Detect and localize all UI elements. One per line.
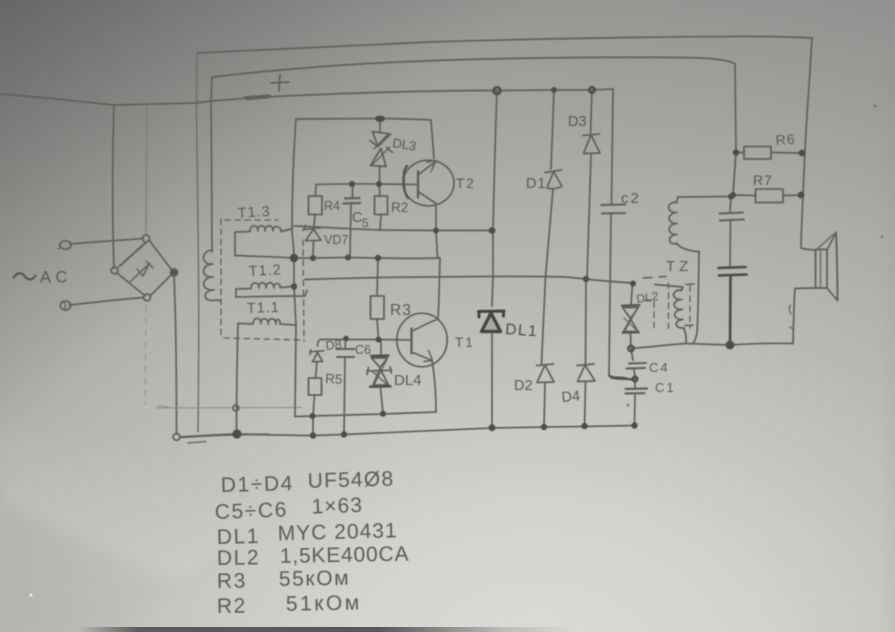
svg-text:T1.2: T1.2 bbox=[248, 262, 282, 280]
wire V0 to bridge left corner bbox=[113, 105, 114, 268]
svg-text:55кОм: 55кОм bbox=[279, 567, 351, 591]
node box top edge DL3 junction bbox=[375, 116, 385, 122]
wire rail y257 bbox=[235, 256, 440, 259]
wire AC lead bottom bbox=[69, 298, 144, 306]
wire left box vertical x294 bbox=[292, 119, 296, 416]
TZ polarity ticks bbox=[643, 277, 694, 326]
parts list line D1-D4 bbox=[220, 467, 394, 497]
diode DL3 bbox=[370, 121, 393, 183]
node rail278 DL2 junction bbox=[630, 281, 636, 287]
svg-text:T1.1: T1.1 bbox=[247, 300, 281, 317]
wire stray dash below bottom rail bbox=[188, 442, 206, 444]
transformer T1 core dashed left bbox=[220, 219, 222, 337]
wire speaker bottom lead bbox=[793, 288, 816, 344]
diode D1 bbox=[545, 90, 562, 277]
diode DL1 bold bbox=[479, 311, 505, 332]
svg-text:DL1: DL1 bbox=[505, 321, 539, 340]
svg-text:R4: R4 bbox=[324, 199, 340, 213]
svg-text:D8: D8 bbox=[325, 337, 342, 353]
svg-text:R7: R7 bbox=[753, 172, 773, 188]
svg-text:c2: c2 bbox=[621, 190, 641, 207]
svg-text:DL4: DL4 bbox=[394, 372, 422, 389]
capacitor C5 bbox=[344, 184, 361, 257]
node rail278 D3-D4 junction bbox=[583, 276, 589, 282]
node plus-rail x554 junction bbox=[551, 87, 557, 93]
parts list line R3 bbox=[217, 567, 351, 593]
capacitor C4 bbox=[627, 349, 647, 378]
wire T1.2 left lead down bbox=[235, 289, 237, 297]
resistor R7 bbox=[733, 189, 801, 203]
node rail257 VD7 junction bbox=[310, 255, 316, 261]
wire bottom rail bbox=[180, 426, 634, 438]
bottom-left crease shadow bbox=[0, 430, 340, 632]
svg-text:C5÷C6: C5÷C6 bbox=[214, 498, 288, 524]
svg-text:UF54Ø8: UF54Ø8 bbox=[307, 467, 394, 492]
winding T1.3 bbox=[235, 226, 281, 232]
capacitor C2 bbox=[602, 89, 637, 380]
wire T2 collector vertical bbox=[431, 120, 434, 158]
transformer T1 core dashed bottom bbox=[224, 338, 302, 340]
svg-text:TZ: TZ bbox=[666, 258, 692, 275]
wire T1.1 left lead down to bottom rail bbox=[237, 324, 239, 434]
wire rail y278 long bbox=[305, 276, 631, 283]
svg-text:DL2: DL2 bbox=[217, 546, 261, 570]
diode D2 bbox=[537, 277, 555, 427]
node bottom rail R5 junction bbox=[310, 432, 316, 438]
node TZ primary top junction bbox=[728, 194, 734, 200]
node rail257 R3 junction bbox=[375, 255, 381, 261]
wire between caps bbox=[729, 221, 732, 267]
node R6 left junction bbox=[733, 149, 739, 155]
svg-text:C6: C6 bbox=[355, 343, 371, 357]
svg-text:C: C bbox=[352, 210, 362, 226]
node C4-C1 scribble junction bbox=[632, 376, 637, 381]
wire left vertical V2 to T1 primary bbox=[211, 77, 212, 252]
svg-text:D4: D4 bbox=[561, 388, 581, 406]
node plus-rail x592 junction bbox=[589, 87, 595, 93]
wire R6 left vertical bbox=[731, 64, 736, 197]
svg-text:T2: T2 bbox=[456, 176, 476, 191]
svg-text:R5: R5 bbox=[325, 371, 343, 387]
svg-text:AC: AC bbox=[40, 269, 72, 287]
node rail257 C5 junction bbox=[345, 255, 351, 261]
node TZ bottom junction bbox=[726, 341, 735, 350]
svg-text:1,5KE400CA: 1,5KE400CA bbox=[280, 543, 410, 568]
node R7 left junction bbox=[730, 192, 736, 198]
winding T1.1 bbox=[238, 318, 296, 325]
resistor R4 bbox=[309, 185, 323, 227]
node open circle bottom-left of bottom rail bbox=[173, 434, 180, 441]
bottom dark photo edge strip bbox=[78, 627, 578, 632]
wire plus rail from left edge bbox=[0, 89, 613, 105]
transistor T2 bbox=[403, 160, 454, 206]
transformer T1 primary winding bbox=[204, 250, 221, 301]
capacitor C1 bbox=[626, 378, 648, 426]
wire speaker top lead bbox=[801, 248, 816, 250]
node DL2 bottom junction bbox=[628, 346, 634, 352]
diode D8 bbox=[310, 340, 324, 379]
parts list text bbox=[214, 467, 409, 618]
capacitor C upper on TZ right bbox=[720, 213, 745, 221]
resistor R5 bbox=[309, 378, 322, 435]
wire bold vertical to bottom dot bbox=[729, 276, 732, 346]
faint construction line y408 bbox=[156, 406, 302, 408]
node bottom rail T1.1 blob bbox=[232, 429, 241, 438]
node R6 right junction bbox=[799, 150, 806, 157]
wire T2 emitter down bbox=[435, 204, 437, 231]
wire faint vertical to bridge top corner bbox=[146, 104, 147, 235]
wire second top rail bbox=[212, 57, 735, 77]
resistor R6 bbox=[736, 147, 802, 160]
node bottom rail DL1 junction bbox=[489, 424, 496, 431]
resistor R2 bbox=[375, 184, 388, 230]
diode D4 bbox=[577, 280, 595, 427]
wire T1.3 right lead up bbox=[281, 229, 291, 232]
diode DL2 bbox=[622, 284, 640, 349]
wire left vertical V1 to bottom rail bbox=[197, 53, 199, 432]
wire right outer vertical bbox=[801, 38, 812, 248]
node box edge R5 junction bbox=[310, 413, 316, 419]
transformer TZ core dashes bbox=[654, 283, 690, 333]
wire center vertical DL1 line bbox=[492, 91, 497, 306]
wire bridge right corner down to bottom rail bbox=[174, 276, 177, 434]
resistor R3 bbox=[371, 258, 385, 339]
transformer T1 core dashed right bbox=[303, 240, 304, 341]
node R7 right junction bbox=[798, 192, 805, 199]
svg-text:MYC 20431: MYC 20431 bbox=[277, 519, 397, 545]
svg-text:C1: C1 bbox=[655, 380, 676, 395]
wire T1 collector up to rail bbox=[438, 258, 440, 319]
parts list line C5-C6 bbox=[214, 494, 363, 524]
parts list line R2 bbox=[217, 591, 362, 618]
faint dashed vertical below bridge bbox=[145, 306, 146, 404]
wire plus rail overdraw scribble bbox=[244, 96, 270, 100]
node rail184 DL3-R2 junction bbox=[376, 181, 382, 187]
svg-text:5: 5 bbox=[362, 216, 369, 230]
svg-text:D3: D3 bbox=[568, 114, 587, 130]
wire rail y230 emitter line bbox=[294, 226, 492, 231]
svg-text:R2: R2 bbox=[391, 200, 408, 215]
right edge shading bbox=[877, 60, 895, 632]
wire DL1 to bottom rail bbox=[491, 333, 493, 427]
node AC terminal 2 bbox=[60, 301, 70, 310]
winding T1.2 bbox=[236, 283, 292, 289]
lower box bottom edge bbox=[295, 412, 436, 417]
upper box top edge bbox=[296, 119, 431, 121]
wire top outer rail bbox=[197, 36, 812, 53]
svg-text:T1.3: T1.3 bbox=[237, 204, 271, 222]
transistor T1 bbox=[397, 313, 447, 367]
speaker lead tick marks bbox=[789, 305, 793, 329]
node base line C6 junction bbox=[343, 336, 349, 342]
svg-text:51кОм: 51кОм bbox=[286, 591, 362, 615]
svg-text:D1÷D4: D1÷D4 bbox=[221, 472, 295, 497]
diode VD7 bbox=[303, 226, 322, 258]
parts list line DL2 bbox=[217, 543, 410, 570]
label ~AC bbox=[13, 273, 36, 279]
node bottom rail C1 junction bbox=[631, 422, 637, 428]
wire T2 emitter junction to T1 collector bbox=[436, 231, 440, 259]
svg-text:R2: R2 bbox=[217, 594, 247, 618]
wire TZ primary bottom vertical bbox=[692, 252, 699, 345]
parts list line DL1 bbox=[216, 519, 397, 549]
node rail184 C5 junction bbox=[349, 181, 355, 187]
bridge rectifier bbox=[111, 235, 177, 301]
node base line R3-DL4 junction bbox=[376, 337, 382, 343]
paper specks bbox=[29, 105, 883, 597]
wire hook line below T1.2 bbox=[236, 291, 307, 298]
svg-text:R3: R3 bbox=[390, 302, 412, 319]
node bottom rail D2 junction bbox=[541, 424, 547, 430]
wire T1.3 left lead down bbox=[234, 232, 236, 256]
node plus-rail x497 junction bbox=[494, 87, 501, 94]
capacitor C lower bold bbox=[719, 267, 747, 276]
wire TZ bottom line bbox=[631, 343, 793, 348]
node small circle on T1.1 lead bbox=[233, 405, 239, 411]
svg-text:1×63: 1×63 bbox=[311, 494, 363, 519]
svg-text:VD7: VD7 bbox=[324, 233, 348, 247]
transformer TZ primary winding bbox=[669, 197, 730, 252]
transformer T1 core dashed top bbox=[225, 219, 278, 221]
diode DL4 bbox=[367, 340, 392, 414]
svg-text:C4: C4 bbox=[649, 360, 670, 375]
wire capacitor stack vertical top bbox=[730, 197, 731, 212]
wire bottom rail overdraw left bbox=[181, 434, 268, 437]
speaker bbox=[816, 233, 838, 301]
wire T1 emitter down to box corner bbox=[432, 361, 436, 413]
node T1.2 right end junction bbox=[291, 283, 297, 289]
node AC terminal 1 bbox=[58, 241, 71, 250]
node bottom rail D4 junction bbox=[581, 423, 587, 429]
transformer TZ secondary winding bbox=[655, 285, 686, 343]
node rail257 T1.3 junction bbox=[290, 254, 298, 262]
capacitor C6 bbox=[337, 339, 355, 435]
wire AC lead top bbox=[70, 239, 143, 245]
node bottom rail C6 junction bbox=[341, 431, 347, 437]
wire rail y184 R4-C5-R2-base bbox=[316, 183, 418, 186]
svg-text:D1: D1 bbox=[526, 176, 547, 192]
plus sign bbox=[271, 75, 289, 92]
svg-text:D2: D2 bbox=[514, 378, 533, 394]
node emitter line center junction bbox=[489, 227, 496, 234]
svg-text:R6: R6 bbox=[775, 131, 796, 148]
svg-text:R3: R3 bbox=[217, 569, 247, 593]
node emitter line T2 junction bbox=[433, 228, 439, 234]
wire T1 base line bbox=[320, 339, 411, 342]
node box edge DL4 junction bbox=[380, 411, 386, 417]
svg-text:T1: T1 bbox=[455, 335, 475, 350]
diode D3 bbox=[583, 90, 600, 279]
